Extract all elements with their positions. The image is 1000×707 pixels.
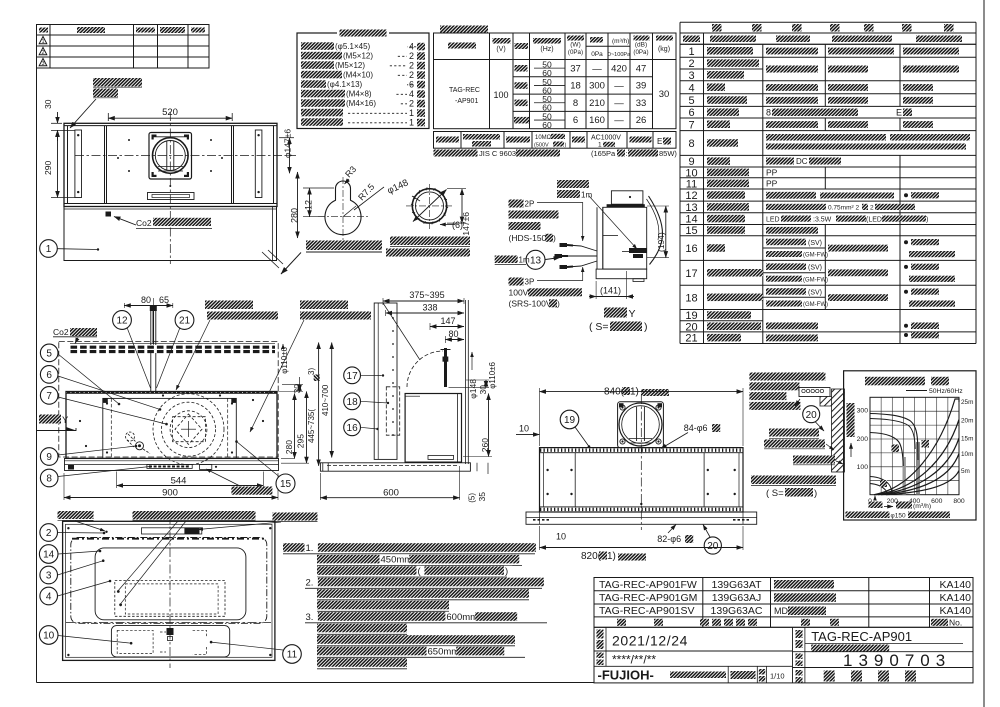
svg-text:Y: Y xyxy=(629,308,636,320)
svg-text:(GM-FW): (GM-FW) xyxy=(803,277,828,283)
svg-text:E: E xyxy=(896,108,902,118)
svg-text:7: 7 xyxy=(46,391,52,402)
svg-text:295: 295 xyxy=(296,434,306,448)
svg-text:(M4×10): (M4×10) xyxy=(343,71,373,80)
front inner panel xyxy=(103,398,237,458)
svg-text:420: 420 xyxy=(611,63,627,74)
note line 8 xyxy=(317,624,407,633)
svg-text:16: 16 xyxy=(347,423,359,434)
fan chart legend xyxy=(906,390,927,392)
front bottom strip xyxy=(65,457,279,459)
front hood top rail xyxy=(66,391,277,394)
side view duct cover column xyxy=(374,303,397,459)
fan chart y axis title xyxy=(847,403,855,437)
svg-text:(5): (5) xyxy=(468,493,477,503)
svg-text:(φ5.1×45): (φ5.1×45) xyxy=(335,42,371,51)
cleaning display label xyxy=(231,487,272,495)
parts row 9 cells xyxy=(766,158,794,165)
svg-text:6: 6 xyxy=(688,107,694,119)
svg-text:3: 3 xyxy=(46,571,52,582)
svg-text:100: 100 xyxy=(857,464,869,471)
svg-text:3P: 3P xyxy=(525,278,535,287)
svg-text:4: 4 xyxy=(46,592,52,603)
svg-text:2: 2 xyxy=(409,51,414,61)
balloon 21 xyxy=(175,311,194,330)
fan chart fan curve weak xyxy=(870,477,892,494)
balloon 15 xyxy=(276,474,295,493)
svg-text:(SV): (SV) xyxy=(808,290,822,297)
svg-text:20: 20 xyxy=(685,321,697,333)
balloon 19 xyxy=(560,410,579,429)
page right border xyxy=(983,0,985,707)
parts row 5 cells xyxy=(766,97,818,104)
svg-text:300: 300 xyxy=(589,81,605,92)
svg-text:(φ4.1×13): (φ4.1×13) xyxy=(327,80,363,89)
exhaust ring diagonal xyxy=(413,190,447,222)
svg-text:26: 26 xyxy=(636,115,647,126)
svg-text:65: 65 xyxy=(159,295,169,305)
svg-text::3.5W: :3.5W xyxy=(813,217,832,224)
fan chart fan curve mid xyxy=(870,433,903,467)
svg-text:5: 5 xyxy=(688,95,694,107)
fan chart plot grid xyxy=(870,397,959,494)
svg-text:210: 210 xyxy=(589,98,605,109)
accessory row soft xyxy=(301,109,343,117)
svg-text:18: 18 xyxy=(570,81,581,92)
svg-text:1: 1 xyxy=(688,46,694,58)
svg-text:KA140: KA140 xyxy=(939,605,971,617)
svg-text:544: 544 xyxy=(171,476,187,487)
side view hidden dashed box xyxy=(386,387,399,435)
bottom view lower dashed parts xyxy=(117,630,153,653)
plan view bottom slot xyxy=(148,193,195,200)
balloon 6 xyxy=(40,366,58,384)
svg-text:50Hz/60Hz: 50Hz/60Hz xyxy=(929,388,963,395)
svg-text:450mm: 450mm xyxy=(381,554,413,565)
parts row 4 name xyxy=(707,83,725,91)
front duct stem xyxy=(150,353,152,391)
svg-text:MD: MD xyxy=(774,606,788,616)
svg-text:): ) xyxy=(644,321,648,333)
svg-text:(kg): (kg) xyxy=(658,46,670,53)
svg-text:0Pa: 0Pa xyxy=(591,51,603,58)
svg-text:200: 200 xyxy=(857,436,869,443)
plan lower box xyxy=(64,207,277,261)
svg-text:7: 7 xyxy=(688,119,694,131)
title block bottom frame xyxy=(594,627,973,683)
svg-text:20m: 20m xyxy=(961,418,973,425)
wiring connectors xyxy=(567,245,597,251)
plan lower box break lines xyxy=(262,252,279,268)
svg-text:(SV): (SV) xyxy=(808,265,822,272)
arrow view Y label xyxy=(39,415,61,424)
svg-text:(GM-FW): (GM-FW) xyxy=(803,253,828,259)
back view bottom rail xyxy=(540,507,744,512)
svg-text:30: 30 xyxy=(292,384,302,394)
title date updated xyxy=(597,653,604,659)
svg-text:(m³/h): (m³/h) xyxy=(913,503,931,510)
bottom view connector window xyxy=(142,528,202,534)
accessory row alumi xyxy=(301,118,343,126)
svg-text:10MΩ: 10MΩ xyxy=(535,135,552,141)
parts row 16 cells xyxy=(766,239,806,246)
note line 3 xyxy=(317,566,417,575)
accessory row kineji xyxy=(301,80,326,88)
bottom view oil panel xyxy=(71,538,267,624)
front display window xyxy=(147,465,192,469)
svg-text:160: 160 xyxy=(589,115,605,126)
parts row 14 name xyxy=(707,215,745,223)
svg-text:82-φ6: 82-φ6 xyxy=(657,534,681,544)
svg-text:2: 2 xyxy=(870,205,874,212)
svg-text:φ148: φ148 xyxy=(468,379,478,399)
svg-text:LED: LED xyxy=(766,217,780,224)
svg-text:3.: 3. xyxy=(306,612,314,623)
svg-text:20: 20 xyxy=(707,541,719,552)
bottom view top slot row xyxy=(72,538,264,540)
svg-text:): ) xyxy=(814,488,817,499)
balloon 10 xyxy=(39,626,58,645)
svg-text:10: 10 xyxy=(519,424,529,434)
svg-text:-FUJIOH-: -FUJIOH- xyxy=(598,668,654,683)
title model name xyxy=(804,627,806,683)
svg-text:TAG-REC-AP901GM: TAG-REC-AP901GM xyxy=(599,592,697,604)
wiring terminal block xyxy=(629,248,647,253)
svg-text:8: 8 xyxy=(573,98,578,109)
svg-text:900: 900 xyxy=(162,488,178,499)
svg-text:2P: 2P xyxy=(525,200,535,209)
parts row 6 name xyxy=(707,108,739,116)
svg-text:10: 10 xyxy=(43,631,55,642)
characteristics bottom band xyxy=(434,132,677,149)
svg-text:(W): (W) xyxy=(570,42,580,49)
svg-text:10: 10 xyxy=(556,532,566,542)
svg-text:—: — xyxy=(614,115,624,126)
rear exhaust label xyxy=(300,301,348,310)
svg-text:****/**/**: ****/**/** xyxy=(612,653,656,667)
svg-text:1m: 1m xyxy=(519,256,530,265)
svg-text:2: 2 xyxy=(688,58,694,70)
balloon 8 xyxy=(40,469,58,487)
svg-text:): ) xyxy=(505,566,508,577)
svg-text:650mm: 650mm xyxy=(428,646,460,657)
balloon 11 xyxy=(283,645,302,664)
parts row 10 name xyxy=(707,169,749,177)
svg-text:820(: 820( xyxy=(581,551,602,562)
parts rows 2-3 cells xyxy=(766,66,818,73)
wiring body xyxy=(596,207,598,269)
svg-text:21: 21 xyxy=(179,316,191,327)
svg-text:JIS C 9603: JIS C 9603 xyxy=(479,149,516,158)
title drawing name xyxy=(793,667,974,669)
back view inner verticals xyxy=(574,453,576,507)
parts row 17 name xyxy=(707,269,763,277)
svg-text:(0Pa): (0Pa) xyxy=(633,49,648,56)
svg-text:TAG-REC: TAG-REC xyxy=(449,87,480,94)
svg-text:): ) xyxy=(565,143,567,149)
svg-text:15: 15 xyxy=(685,225,697,237)
exhaust ring center lines xyxy=(429,184,431,229)
mount hole detail circles xyxy=(325,181,361,235)
svg-text:30: 30 xyxy=(478,385,488,395)
svg-text:(500V: (500V xyxy=(534,143,549,149)
note line 6 xyxy=(317,601,449,610)
svg-text:φ110±6: φ110±6 xyxy=(488,361,497,388)
parts row 12 name xyxy=(707,191,745,199)
bottom view labels xyxy=(58,511,94,519)
svg-text:( S=: ( S= xyxy=(766,488,784,499)
back view top rail xyxy=(540,448,744,453)
parts row 13 name xyxy=(707,203,749,211)
svg-text:): ) xyxy=(553,233,556,243)
parts table header xyxy=(680,33,976,44)
svg-text:11: 11 xyxy=(287,650,298,661)
svg-text:1): 1) xyxy=(607,551,616,562)
svg-text:410~700: 410~700 xyxy=(321,384,330,416)
svg-text:4: 4 xyxy=(409,41,414,51)
svg-text:(M4×16): (M4×16) xyxy=(346,99,376,108)
wall section hatch xyxy=(832,389,845,472)
svg-text::: : xyxy=(626,149,628,158)
svg-text:-AP901: -AP901 xyxy=(455,98,478,105)
svg-text:1: 1 xyxy=(598,142,602,149)
svg-text:19: 19 xyxy=(564,415,576,426)
svg-text:16: 16 xyxy=(685,243,697,255)
balloon 17 xyxy=(344,367,361,384)
parts row 7 name xyxy=(707,121,730,129)
exhaust ring label xyxy=(390,237,470,246)
balloon 1 xyxy=(40,240,58,258)
svg-text:(LED: (LED xyxy=(866,217,882,224)
back view center line xyxy=(640,395,642,530)
svg-text:8: 8 xyxy=(766,108,771,118)
svg-text:85W): 85W) xyxy=(659,149,677,158)
svg-text:338: 338 xyxy=(422,303,437,313)
exhaust ring xyxy=(412,189,446,223)
svg-text:KA140: KA140 xyxy=(939,592,971,604)
svg-text:600: 600 xyxy=(931,498,943,505)
side panel label xyxy=(93,78,142,87)
svg-text:445~735(: 445~735( xyxy=(307,409,316,443)
parts table grid xyxy=(679,44,681,343)
svg-text:6: 6 xyxy=(46,370,52,381)
svg-text:(M4×8): (M4×8) xyxy=(346,90,372,99)
back view base plate xyxy=(526,512,757,524)
note line 11 xyxy=(317,658,407,667)
svg-text:Co2: Co2 xyxy=(136,218,152,228)
svg-text:600: 600 xyxy=(383,488,399,499)
bottom view lower panel xyxy=(111,626,229,657)
wiring duct stub xyxy=(611,191,643,204)
svg-text:AC1000V: AC1000V xyxy=(591,135,621,142)
characteristics row chu xyxy=(515,82,528,89)
svg-text:( S=: ( S= xyxy=(589,321,609,333)
plan view duct circle xyxy=(153,138,189,174)
svg-text:14: 14 xyxy=(685,214,697,226)
svg-text:6: 6 xyxy=(573,115,578,126)
front hidden verticals xyxy=(110,398,112,458)
svg-text:(6): (6) xyxy=(452,220,463,230)
svg-text:30: 30 xyxy=(659,89,670,100)
parts row 11 name xyxy=(707,180,749,188)
wiring earth label xyxy=(557,180,589,188)
note line 9 xyxy=(317,635,515,644)
svg-text:80: 80 xyxy=(448,329,458,339)
title date created xyxy=(597,630,604,639)
wiring bottom step xyxy=(596,269,647,279)
note line 1 xyxy=(283,543,305,552)
wiring gaiki 1m label xyxy=(495,256,518,264)
plan view center line xyxy=(169,112,171,264)
hood align label xyxy=(769,429,819,437)
svg-text:(0Pa): (0Pa) xyxy=(568,49,583,56)
characteristics note xyxy=(434,150,478,157)
side view rear wall lines xyxy=(465,300,467,464)
svg-text:37: 37 xyxy=(570,63,581,74)
plan view inner verticals xyxy=(104,126,106,204)
back view holes xyxy=(546,469,548,471)
svg-text:(165Pa: (165Pa xyxy=(591,149,616,158)
svg-text:290: 290 xyxy=(43,161,53,175)
svg-text:12: 12 xyxy=(304,200,314,210)
fan chart title xyxy=(865,377,925,386)
mount hole center lines xyxy=(342,177,344,240)
note line 7 xyxy=(305,612,319,622)
svg-text:800: 800 xyxy=(953,498,965,505)
fan chart x axis title xyxy=(884,506,893,508)
wiring exhaust 2P label xyxy=(509,200,524,208)
accessory row lami8 xyxy=(301,90,345,98)
svg-text:19: 19 xyxy=(685,310,697,322)
bottom view latch xyxy=(167,628,174,635)
svg-text:TAG-REC-AP901FW: TAG-REC-AP901FW xyxy=(599,579,697,591)
parts row 4 cells xyxy=(766,84,818,91)
mount hole detail label xyxy=(306,241,382,251)
revision mark triangle 3 xyxy=(39,59,47,66)
parts row 13 cells xyxy=(766,204,826,210)
characteristics table frame xyxy=(434,33,677,129)
parts row 5 name xyxy=(707,96,747,104)
svg-text:(V): (V) xyxy=(496,46,505,53)
svg-text:8: 8 xyxy=(46,474,52,485)
svg-text:(M5×12): (M5×12) xyxy=(343,52,373,61)
hook rail part xyxy=(799,388,830,397)
revision table frame xyxy=(37,25,210,69)
parts row 1 cells xyxy=(766,48,818,55)
svg-text:(M5×12): (M5×12) xyxy=(335,61,365,70)
svg-text:4: 4 xyxy=(688,82,694,94)
parts row 21 cells xyxy=(766,335,818,342)
balloon 5 xyxy=(40,344,58,362)
parts row 16 name xyxy=(707,244,725,252)
svg-text:): ) xyxy=(557,299,560,309)
balloon 12 xyxy=(113,311,132,330)
revision mark triangle 2 xyxy=(39,48,47,55)
svg-text:280: 280 xyxy=(290,208,300,223)
svg-text:2: 2 xyxy=(409,60,414,70)
svg-text:1: 1 xyxy=(46,244,52,255)
svg-text:33: 33 xyxy=(636,98,647,109)
parts row 18 name xyxy=(707,294,763,302)
fan chart bottom note xyxy=(846,512,890,519)
accessory row torasu xyxy=(301,52,342,60)
svg-text:25m: 25m xyxy=(961,399,973,406)
note line 2 xyxy=(317,555,380,564)
svg-text:(dB): (dB) xyxy=(635,42,647,49)
type table header xyxy=(617,619,626,626)
svg-text:21: 21 xyxy=(685,333,697,345)
title drawing number xyxy=(593,650,595,652)
fan chart fan curve strong xyxy=(870,414,918,461)
parts row 2 name xyxy=(707,59,759,67)
svg-text:E: E xyxy=(657,137,662,146)
note line 5 xyxy=(317,589,529,598)
svg-text:1: 1 xyxy=(41,39,44,45)
title block type table xyxy=(594,578,973,628)
svg-text:147: 147 xyxy=(440,316,455,326)
accessory row zaneji xyxy=(301,42,334,50)
svg-text:—: — xyxy=(614,81,624,92)
svg-text:47: 47 xyxy=(636,63,647,74)
balloon 16 xyxy=(344,419,361,436)
svg-text:TAG-REC-AP901: TAG-REC-AP901 xyxy=(811,629,912,644)
bottom view center vline xyxy=(169,515,171,668)
parts row 20 name xyxy=(707,323,761,331)
back view duct box xyxy=(618,402,664,448)
svg-text:100V: 100V xyxy=(509,288,529,298)
svg-text:39: 39 xyxy=(636,81,647,92)
svg-text:8: 8 xyxy=(688,138,694,150)
svg-text:600mm: 600mm xyxy=(446,612,478,623)
svg-text:84-φ6: 84-φ6 xyxy=(684,423,708,433)
fan chart fan curve always xyxy=(870,484,888,494)
svg-text:18: 18 xyxy=(685,292,697,304)
svg-text:11: 11 xyxy=(686,178,697,190)
svg-text:4: 4 xyxy=(409,89,414,99)
balloon 14 xyxy=(39,545,58,564)
revision mark triangle 1 xyxy=(39,37,47,44)
svg-text:139G63AC: 139G63AC xyxy=(711,605,763,617)
co2 intake square xyxy=(106,212,112,217)
balloon 3 xyxy=(40,566,58,584)
svg-text:12: 12 xyxy=(116,316,128,327)
parts row 19 name xyxy=(707,311,751,319)
parts row 3 name xyxy=(707,71,744,79)
svg-text:15: 15 xyxy=(280,479,292,490)
bottom view inner panel xyxy=(95,548,246,620)
view Y title xyxy=(604,308,627,318)
svg-text:30: 30 xyxy=(43,99,53,109)
svg-text:280: 280 xyxy=(284,440,294,454)
front hood box xyxy=(66,392,277,459)
svg-text:0~100Pa: 0~100Pa xyxy=(608,52,631,58)
parts row 1 name xyxy=(707,47,753,55)
svg-text:2.: 2. xyxy=(306,577,314,588)
svg-text:2: 2 xyxy=(41,50,44,56)
side view vent box xyxy=(428,455,454,459)
svg-text:PP: PP xyxy=(766,168,778,178)
svg-text:3): 3) xyxy=(307,368,316,375)
side exhaust label xyxy=(205,301,253,310)
balloon 18 xyxy=(344,393,361,410)
svg-text:17: 17 xyxy=(685,268,697,280)
hook rail detail title xyxy=(751,476,836,485)
accessories box (fuzokuhin) xyxy=(297,33,429,129)
svg-text:1: 1 xyxy=(409,117,414,127)
svg-text:17: 17 xyxy=(347,371,359,382)
parts row 17 cells xyxy=(766,263,806,270)
accessory row torasu2 xyxy=(301,71,342,79)
